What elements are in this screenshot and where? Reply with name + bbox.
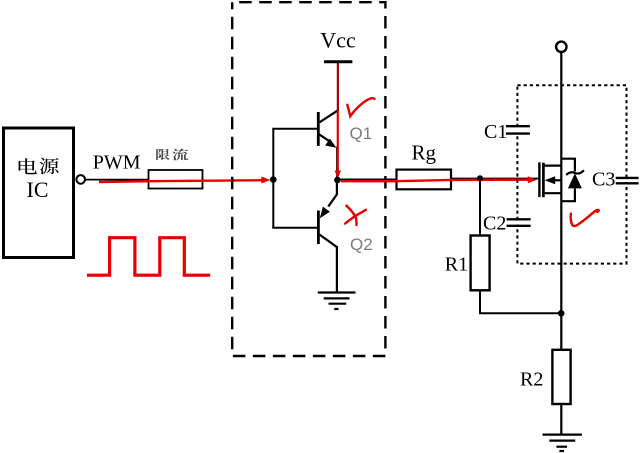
MOSFET channel bar: [542, 163, 545, 198]
red arrowhead at gate: [528, 176, 537, 183]
wire R2 to ground: [560, 404, 562, 435]
body diode triangle: [568, 173, 582, 188]
svg-text:R1: R1: [445, 253, 468, 275]
body diode cathode bar: [566, 170, 584, 175]
svg-text:C3: C3: [592, 169, 615, 191]
Q2 collector: [320, 235, 337, 248]
PWM output terminal: [76, 175, 85, 184]
red trace Vcc through Q1: [337, 63, 339, 111]
transistor Q2 base bar: [317, 211, 320, 245]
wire down to R1: [479, 178, 481, 235]
ground under R2: [543, 435, 582, 451]
resistor Rg: [397, 170, 452, 190]
label 电源: [19, 158, 59, 174]
resistor R2: [552, 350, 570, 404]
drain-source vertical wire: [560, 52, 562, 350]
node B: [334, 177, 341, 184]
Q1 collector: [320, 111, 338, 123]
svg-text:Q2: Q2: [350, 235, 373, 254]
body diode branch lower: [561, 188, 575, 201]
red trace node B to gate: [341, 180, 529, 182]
svg-text:PWM: PWM: [93, 152, 141, 174]
Q1 emitter: [319, 134, 336, 147]
wire R1 to source node: [480, 290, 561, 313]
power IC box: [4, 128, 74, 258]
wire Vcc to Q1 collector: [337, 62, 339, 111]
junction node on source: [558, 310, 565, 317]
junction node R1 tap: [477, 175, 483, 181]
transistor Q1 base bar: [317, 112, 320, 146]
svg-text:R2: R2: [520, 369, 543, 391]
capacitor C2: [507, 219, 531, 226]
dashed driver-stage box: [232, 2, 385, 356]
red arrowhead into node B: [335, 171, 341, 179]
Q1 emitter wire down: [336, 147, 338, 181]
svg-text:IC: IC: [27, 177, 49, 202]
ground under Q2: [318, 293, 356, 310]
MOSFET body stub and arrow: [545, 176, 562, 184]
svg-text:C2: C2: [483, 212, 506, 234]
label 限流: [156, 149, 188, 161]
wire to Q1 base: [272, 128, 318, 130]
resistor 限流 (current limit): [149, 170, 203, 189]
capacitor C3: [616, 178, 639, 183]
MOSFET drain stub: [545, 165, 562, 167]
red X mark at Q2: [345, 206, 366, 225]
node A: [270, 176, 277, 183]
drain terminal: [556, 42, 566, 52]
wire Rg to gate: [451, 178, 539, 180]
svg-text:Rg: Rg: [412, 141, 437, 165]
red signal trace PWM to node A: [99, 180, 263, 182]
body diode branch upper: [561, 159, 575, 172]
resistor R1: [471, 236, 490, 291]
MOSFET gate bar: [538, 162, 540, 197]
svg-text:Vcc: Vcc: [320, 27, 356, 52]
base bus wire: [272, 129, 274, 228]
red arrowhead at node A: [261, 177, 270, 184]
Q2 collector wire down: [336, 246, 338, 293]
red check mark at MOSFET: [571, 210, 599, 226]
Q2 emitter wire from node B: [336, 180, 338, 195]
svg-text:Q1: Q1: [350, 124, 373, 143]
svg-text:C1: C1: [484, 121, 507, 143]
wire IC to limiter: [85, 179, 149, 181]
Vcc rail bar: [324, 60, 352, 63]
dotted MOSFET box: [517, 85, 626, 263]
capacitor C1: [506, 126, 530, 133]
MOSFET source stub: [545, 192, 562, 194]
wire node B to Rg: [337, 178, 397, 180]
PWM waveform: [87, 238, 210, 276]
red check mark at Q1: [347, 98, 374, 116]
Q2 emitter with arrow into base: [320, 194, 337, 218]
wire to Q2 base: [272, 227, 317, 229]
